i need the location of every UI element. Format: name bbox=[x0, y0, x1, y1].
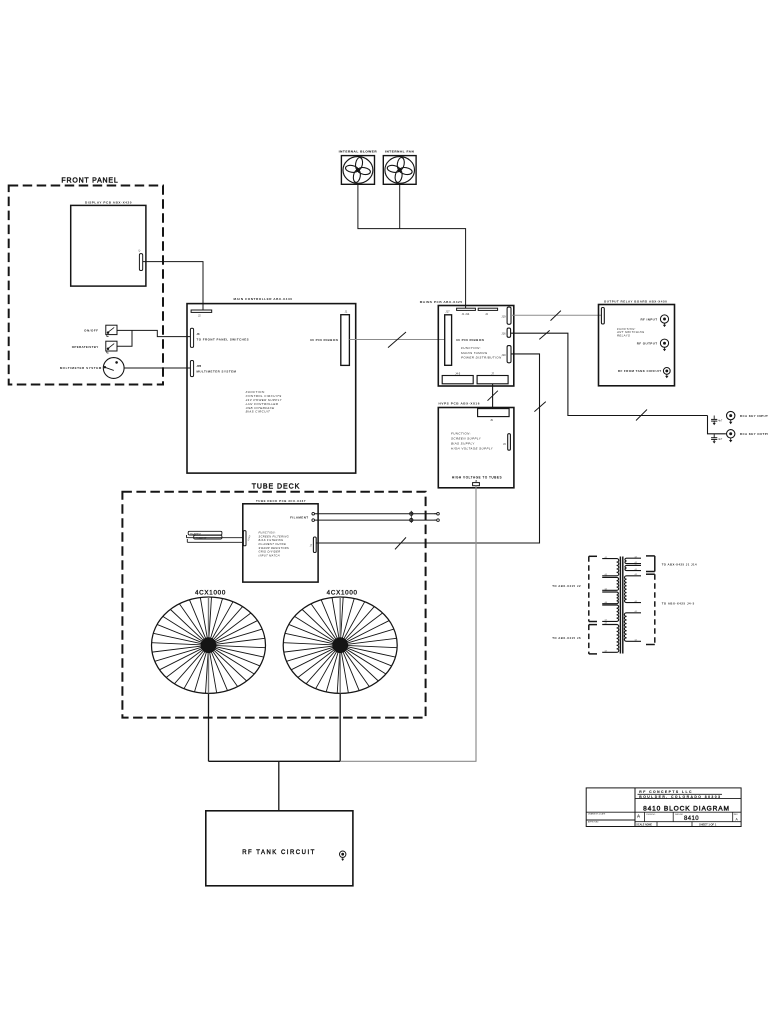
svg-text:RELAYS: RELAYS bbox=[617, 334, 630, 338]
svg-text:TO ABX-X425 J4-5: TO ABX-X425 J4-5 bbox=[662, 602, 695, 606]
svg-text:4n7: 4n7 bbox=[718, 438, 723, 441]
svg-text:J16: J16 bbox=[501, 332, 506, 336]
svg-text:INPUT MATCH: INPUT MATCH bbox=[259, 554, 280, 558]
svg-text:JP8: JP8 bbox=[197, 364, 202, 368]
svg-text:GRID DIVIDER: GRID DIVIDER bbox=[259, 550, 281, 554]
svg-text:SCALE NONE: SCALE NONE bbox=[636, 823, 652, 826]
svg-text:4n7: 4n7 bbox=[718, 420, 723, 423]
svg-text:RF INPUT: RF INPUT bbox=[640, 317, 657, 321]
svg-text:FRONT PANEL: FRONT PANEL bbox=[61, 178, 118, 185]
svg-text:HIGH VOLTAGE TO TUBES: HIGH VOLTAGE TO TUBES bbox=[452, 475, 502, 479]
svg-text:POWER DISTRIBUTION: POWER DISTRIBUTION bbox=[461, 355, 502, 359]
svg-text:4-5: 4-5 bbox=[635, 574, 638, 576]
svg-text:4-5: 4-5 bbox=[635, 564, 638, 566]
svg-text:DWG NO: DWG NO bbox=[675, 814, 684, 816]
svg-text:DISPLAY PCB ABX-X420: DISPLAY PCB ABX-X420 bbox=[85, 201, 132, 205]
svg-text:A: A bbox=[637, 814, 640, 819]
svg-text:SCREEN SUPPLY: SCREEN SUPPLY bbox=[451, 437, 482, 441]
svg-text:4-5: 4-5 bbox=[605, 557, 608, 559]
svg-text:RCA KEY OUTPUT: RCA KEY OUTPUT bbox=[740, 432, 768, 436]
svg-text:HVPS PCB ABX-X816: HVPS PCB ABX-X816 bbox=[439, 402, 481, 406]
svg-text:FILAMENT CHOKE: FILAMENT CHOKE bbox=[259, 542, 287, 546]
svg-text:TO ABX-X425 J1 J14: TO ABX-X425 J1 J14 bbox=[662, 563, 697, 567]
svg-text:MAINS TAMING: MAINS TAMING bbox=[461, 351, 488, 355]
svg-text:4-5: 4-5 bbox=[635, 640, 638, 642]
svg-text:MULTIMETER SYSTEM: MULTIMETER SYSTEM bbox=[197, 369, 237, 373]
svg-text:4-5: 4-5 bbox=[605, 651, 608, 653]
svg-text:J19: J19 bbox=[501, 314, 506, 318]
svg-text:OPERATE/STBY: OPERATE/STBY bbox=[72, 345, 99, 349]
svg-text:SWAMP RESISTORS: SWAMP RESISTORS bbox=[259, 546, 290, 550]
svg-text:FSCM NO: FSCM NO bbox=[647, 814, 656, 816]
svg-text:J10: J10 bbox=[501, 353, 506, 357]
svg-text:4CX1000: 4CX1000 bbox=[195, 589, 226, 596]
svg-text:J1 J14: J1 J14 bbox=[462, 312, 470, 316]
svg-text:ON/OFF: ON/OFF bbox=[84, 328, 98, 332]
svg-text:4-5: 4-5 bbox=[635, 556, 638, 558]
svg-text:4-5: 4-5 bbox=[635, 611, 638, 613]
svg-text:FILAMENT: FILAMENT bbox=[190, 532, 201, 535]
svg-text:TO ABX-X415 J2: TO ABX-X415 J2 bbox=[552, 584, 581, 588]
svg-text:RF TANK CIRCUIT: RF TANK CIRCUIT bbox=[242, 850, 316, 856]
svg-text:MAINS PCB ABX-X425: MAINS PCB ABX-X425 bbox=[420, 300, 463, 304]
svg-text:4-5: 4-5 bbox=[635, 601, 638, 603]
svg-text:MULTIMETER SYSTEM: MULTIMETER SYSTEM bbox=[60, 366, 102, 370]
svg-text:30 PIN RIBBON: 30 PIN RIBBON bbox=[456, 338, 484, 342]
svg-text:FILAMENT: FILAMENT bbox=[290, 516, 308, 520]
svg-text:RF FROM TANK CIRCUIT: RF FROM TANK CIRCUIT bbox=[618, 369, 662, 373]
svg-text:4-5: 4-5 bbox=[605, 590, 608, 592]
svg-text:TO FRONT PANEL SWITCHES: TO FRONT PANEL SWITCHES bbox=[197, 338, 250, 342]
svg-text:DRAWN BY & DATE: DRAWN BY & DATE bbox=[588, 813, 606, 816]
svg-text:RF CONCEPTS LLC: RF CONCEPTS LLC bbox=[639, 790, 693, 794]
svg-text:SCREEN FILTERING: SCREEN FILTERING bbox=[259, 534, 289, 538]
svg-text:RF OUTPUT: RF OUTPUT bbox=[637, 342, 658, 346]
svg-text:APPROVED: APPROVED bbox=[588, 820, 599, 823]
svg-text:OUTPUT RELAY BOARD ABX-X450: OUTPUT RELAY BOARD ABX-X450 bbox=[604, 299, 667, 303]
svg-text:J17: J17 bbox=[445, 310, 450, 314]
svg-text:SHEET 1 OF 1: SHEET 1 OF 1 bbox=[699, 823, 717, 827]
svg-text:TO ABX-X415 J6: TO ABX-X415 J6 bbox=[552, 636, 581, 640]
svg-text:TUBE DECK PCB 3CX-X437: TUBE DECK PCB 3CX-X437 bbox=[256, 499, 306, 503]
svg-text:4-5: 4-5 bbox=[605, 603, 608, 605]
svg-text:4-5: 4-5 bbox=[635, 569, 638, 571]
svg-text:FUNCTION:: FUNCTION: bbox=[461, 346, 481, 350]
svg-text:4-5: 4-5 bbox=[605, 623, 608, 625]
svg-text:4-5: 4-5 bbox=[605, 620, 608, 622]
svg-text:FUNCTION:: FUNCTION: bbox=[259, 530, 276, 534]
svg-text:TUBE DECK: TUBE DECK bbox=[252, 484, 301, 491]
svg-text:INTERNAL FAN: INTERNAL FAN bbox=[385, 149, 414, 153]
svg-text:J4-5: J4-5 bbox=[455, 371, 461, 375]
svg-text:4CX1000: 4CX1000 bbox=[327, 589, 358, 596]
svg-text:MAIN CONTROLLER ABX-X430: MAIN CONTROLLER ABX-X430 bbox=[234, 297, 293, 301]
svg-text:4-5: 4-5 bbox=[605, 576, 608, 578]
svg-text:8410 BLOCK DIAGRAM: 8410 BLOCK DIAGRAM bbox=[643, 805, 730, 812]
svg-text:BIAS SUPPLY: BIAS SUPPLY bbox=[451, 442, 475, 446]
svg-text:BIAS FILTERING: BIAS FILTERING bbox=[259, 538, 284, 542]
svg-text:HIGH VOLTAGE SUPPLY: HIGH VOLTAGE SUPPLY bbox=[451, 447, 494, 451]
svg-text:BIAS CIRCUIT: BIAS CIRCUIT bbox=[246, 410, 271, 414]
svg-text:INTERNAL BLOWER: INTERNAL BLOWER bbox=[339, 149, 378, 153]
svg-text:RCA KEY INPUT: RCA KEY INPUT bbox=[740, 414, 768, 418]
svg-text:FUNCTION:: FUNCTION: bbox=[451, 432, 471, 436]
svg-text:30 PIN RIBBON: 30 PIN RIBBON bbox=[310, 338, 338, 342]
